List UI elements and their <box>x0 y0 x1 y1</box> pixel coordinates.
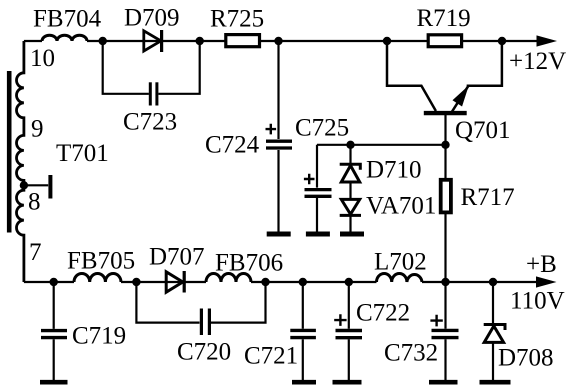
svg-text:D707: D707 <box>149 244 205 271</box>
svg-text:9: 9 <box>31 116 44 143</box>
svg-text:C725: C725 <box>295 115 349 142</box>
diode D710 (zener) <box>349 145 351 165</box>
svg-text:C720: C720 <box>177 339 231 366</box>
svg-text:C719: C719 <box>72 323 126 350</box>
transformer core bar <box>7 71 12 233</box>
diode D708 (zener) <box>492 282 494 323</box>
ground (C732) <box>429 380 458 385</box>
resistor R717 <box>441 180 451 213</box>
inductor FB706 <box>206 274 251 283</box>
svg-text:+B: +B <box>526 251 557 278</box>
svg-text:R719: R719 <box>417 5 471 32</box>
wire top rail <box>24 40 537 42</box>
inductor FB705 <box>74 273 121 282</box>
svg-text:D709: D709 <box>124 5 180 32</box>
svg-text:R725: R725 <box>210 6 264 33</box>
svg-text:R717: R717 <box>461 184 515 211</box>
diode D707 <box>166 272 183 292</box>
ground (D710/VA701) <box>340 232 364 237</box>
junction dots top rail <box>99 37 107 45</box>
junction dots bottom rail <box>50 278 58 286</box>
svg-text:C723: C723 <box>123 109 177 136</box>
inductor L702 <box>377 274 423 283</box>
svg-text:C722: C722 <box>356 300 410 327</box>
ground (C719) <box>40 380 68 385</box>
svg-text:7: 7 <box>29 239 42 266</box>
svg-text:8: 8 <box>28 189 41 216</box>
svg-text:VA701: VA701 <box>366 193 436 220</box>
svg-text:C732: C732 <box>384 340 438 367</box>
ground (C722) <box>333 380 362 385</box>
capacitor C720 plates <box>200 309 203 336</box>
svg-text:D710: D710 <box>366 157 422 184</box>
svg-text:10: 10 <box>30 45 55 72</box>
svg-text:T701: T701 <box>56 140 109 167</box>
svg-text:C721: C721 <box>244 343 298 370</box>
wire bottom rail <box>24 281 536 283</box>
capacitor C720 loop wires <box>136 282 265 323</box>
wire R717 to rail <box>444 212 446 282</box>
node +B arrow <box>536 276 557 287</box>
capacitor C723 loop wires <box>103 41 200 94</box>
ground (C725) <box>306 232 330 237</box>
wire base net <box>317 145 446 180</box>
svg-text:110V: 110V <box>510 288 565 315</box>
diode VA701 <box>349 182 351 199</box>
junction dots base net <box>346 141 354 149</box>
capacitor C722 (electrolytic) <box>348 282 350 380</box>
node pin 8 junction <box>20 181 28 189</box>
svg-text:Q701: Q701 <box>455 117 511 144</box>
pin 8 terminal bar <box>48 175 52 199</box>
capacitor C721 <box>302 282 304 380</box>
svg-text:FB704: FB704 <box>33 6 102 33</box>
svg-text:+12V: +12V <box>509 48 566 75</box>
svg-text:FB706: FB706 <box>215 250 283 277</box>
svg-text:C724: C724 <box>205 132 260 159</box>
svg-text:FB705: FB705 <box>67 248 135 275</box>
resistor R725 <box>226 35 260 47</box>
capacitor C719 <box>53 282 55 380</box>
inductor FB704 <box>42 35 87 41</box>
capacitor C732 (electrolytic) <box>444 282 446 380</box>
svg-text:L702: L702 <box>374 249 427 276</box>
node +12V arrow <box>537 35 558 46</box>
node pin 8 tap wire <box>24 184 48 186</box>
transistor Q701 <box>387 41 436 111</box>
capacitor C723 plates <box>149 82 152 105</box>
transformer T701 winding (pins 10-9-8-7) <box>17 41 24 282</box>
resistor R719 <box>428 35 461 47</box>
ground (C724) <box>267 232 291 237</box>
capacitor C724 (electrolytic) <box>277 41 279 232</box>
diode D709 <box>144 31 161 51</box>
svg-text:D708: D708 <box>498 345 554 372</box>
capacitor C725 (electrolytic) <box>316 145 318 232</box>
ground (D708) <box>480 380 511 385</box>
wire +12V arrow lead <box>537 40 540 42</box>
ground (C721) <box>292 380 316 385</box>
